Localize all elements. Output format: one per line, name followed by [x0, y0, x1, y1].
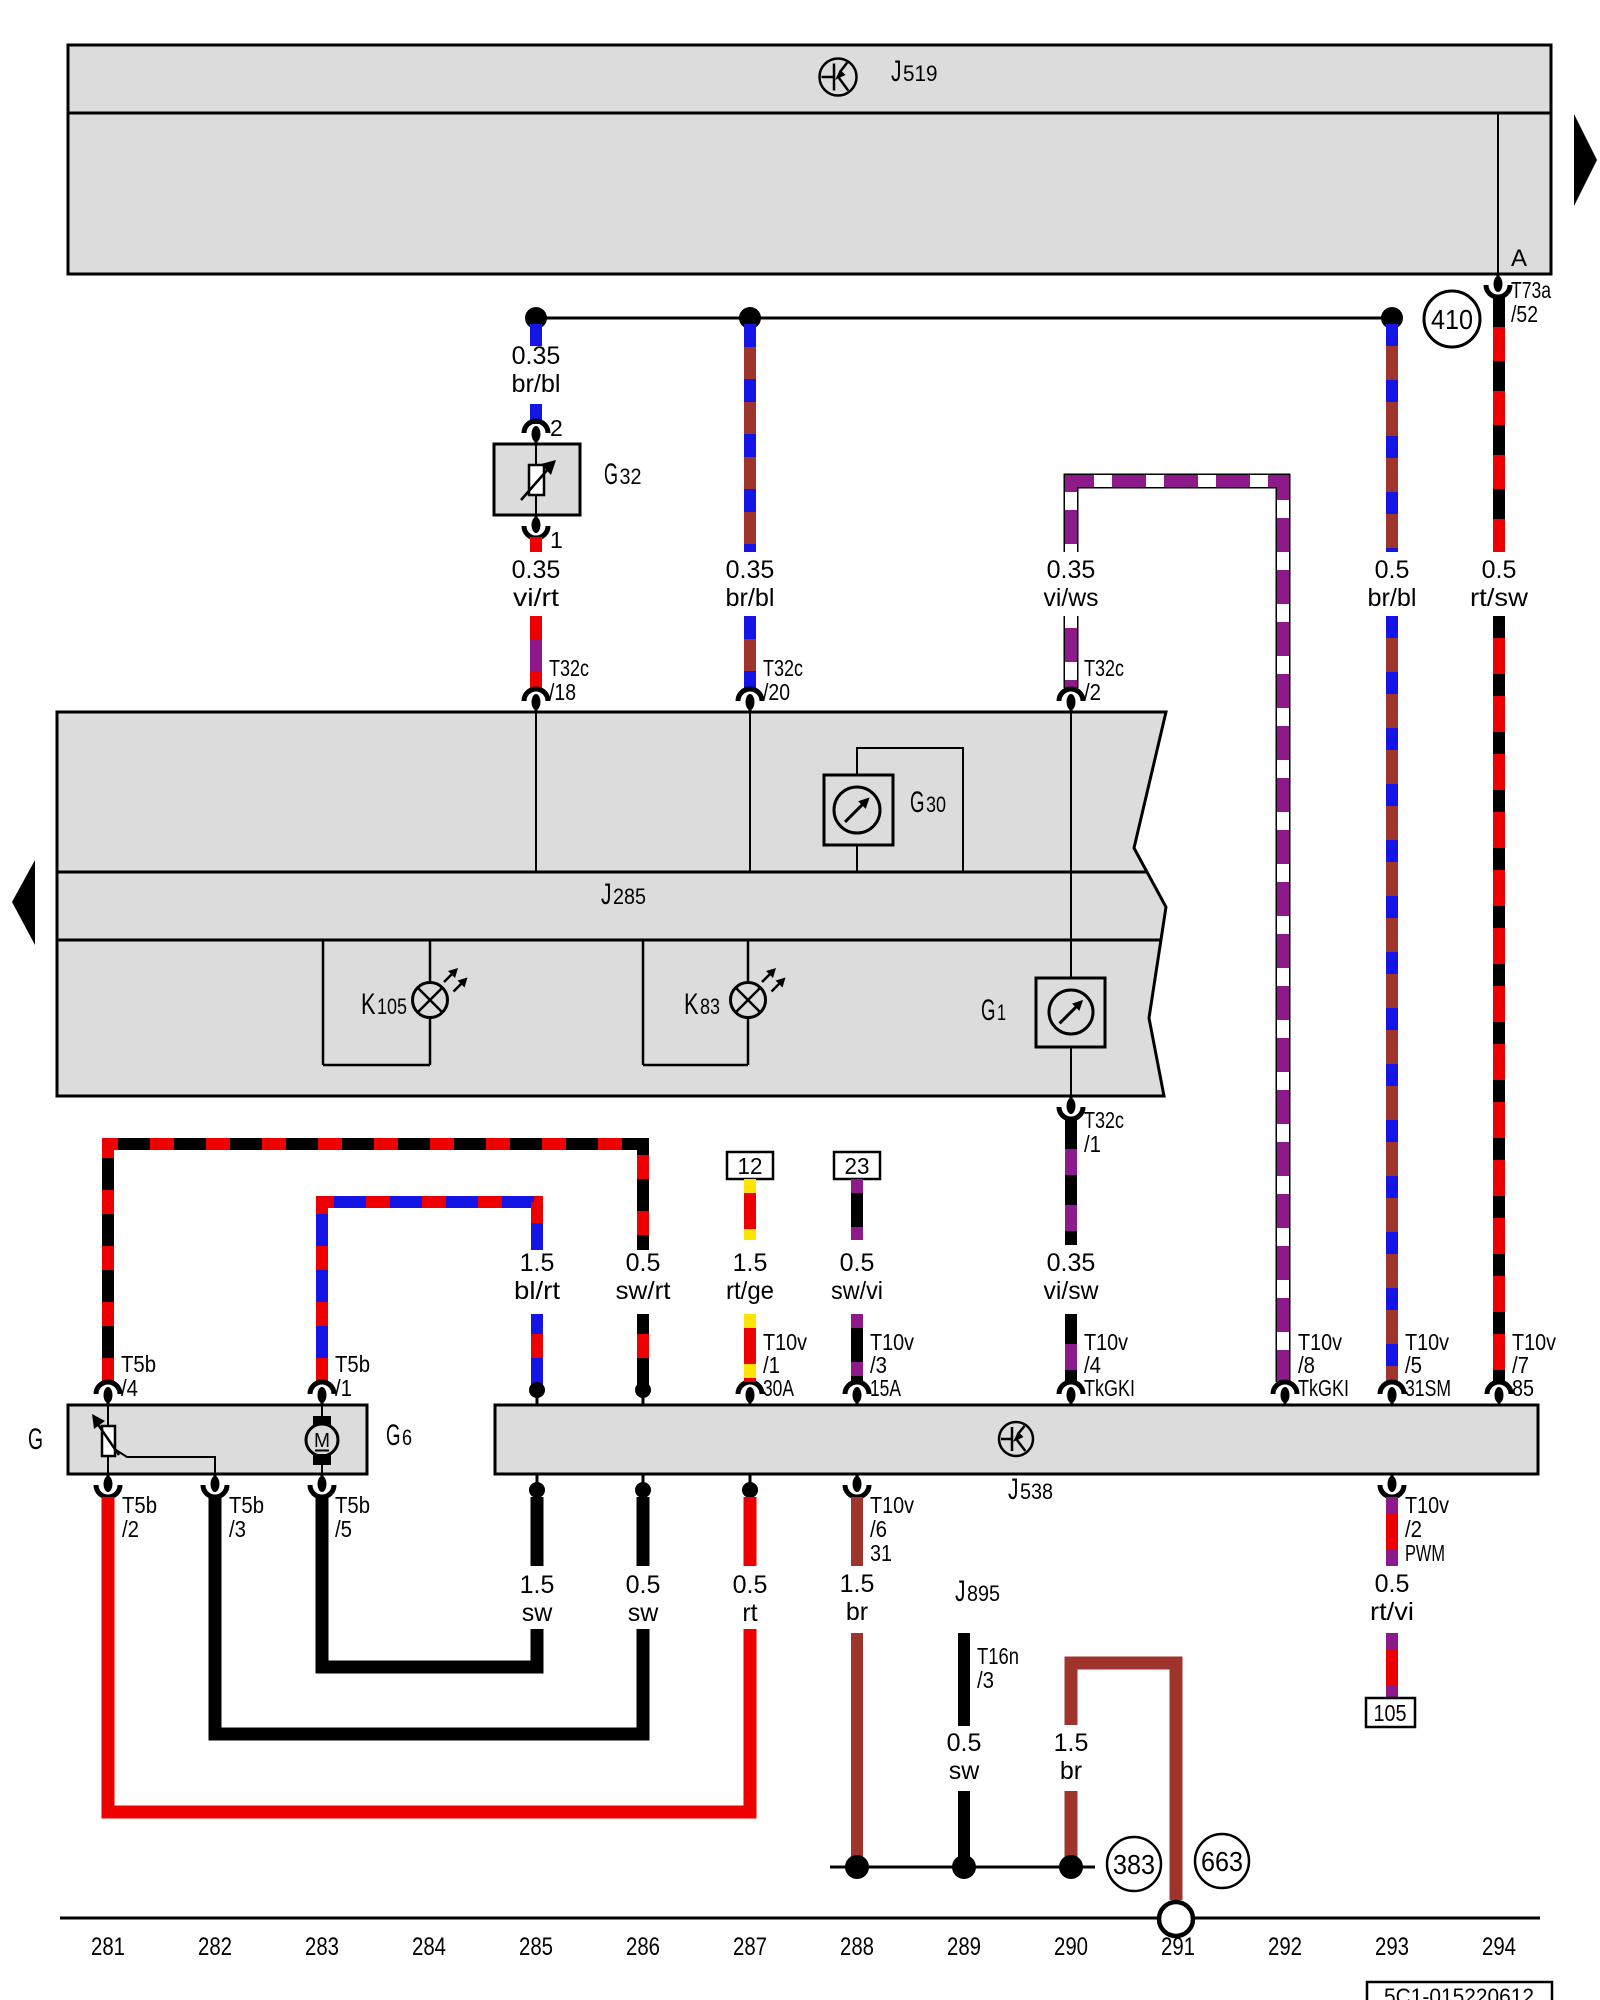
svg-text:12: 12	[738, 1153, 763, 1179]
svg-text:T5b: T5b	[122, 1492, 157, 1518]
svg-text:vi/sw: vi/sw	[1044, 1277, 1100, 1305]
svg-text:0.5: 0.5	[840, 1249, 875, 1277]
svg-text:0.5: 0.5	[1375, 1570, 1410, 1598]
internal wire from T32c/20	[749, 712, 751, 872]
svg-text:T10v: T10v	[870, 1492, 914, 1518]
wire vi/rt stub below G32	[530, 537, 542, 552]
connector T10v/6	[856, 1474, 859, 1490]
internal wire G1 to bottom edge	[1070, 1047, 1072, 1096]
svg-text:23: 23	[845, 1153, 870, 1179]
svg-text:287: 287	[733, 1933, 767, 1961]
svg-text:291: 291	[1161, 1933, 1195, 1961]
junction dot col293	[1381, 307, 1403, 329]
svg-text:0.5: 0.5	[947, 1729, 982, 1757]
connector T10v/1	[749, 1389, 752, 1405]
svg-text:br: br	[846, 1598, 868, 1626]
svg-text:J: J	[1008, 1473, 1019, 1506]
svg-text:PWM: PWM	[1405, 1540, 1445, 1566]
K symbol in J538	[999, 1422, 1033, 1456]
wire 1.5 sw stub	[531, 1497, 544, 1566]
ground connection circle on rail	[1159, 1902, 1193, 1936]
svg-text:sw: sw	[949, 1757, 981, 1785]
svg-text:281: 281	[91, 1933, 125, 1961]
control unit J538 (fuel pump control unit) box	[495, 1405, 1538, 1474]
svg-text:T32c: T32c	[763, 655, 803, 681]
terminal box 105	[1366, 1698, 1415, 1727]
wire 1.5 sw from T5b/5 to J538	[322, 1497, 537, 1667]
svg-text:br: br	[1060, 1757, 1082, 1785]
svg-text:T32c: T32c	[1084, 1107, 1124, 1133]
wire 0.5 sw/rt loop	[108, 1144, 643, 1382]
svg-text:T10v: T10v	[1405, 1492, 1449, 1518]
svg-text:1: 1	[997, 1000, 1006, 1025]
svg-text:895: 895	[967, 1581, 1000, 1606]
svg-text:410: 410	[1431, 304, 1473, 335]
connector T10v/5	[1391, 1389, 1394, 1405]
svg-text:1: 1	[550, 527, 563, 553]
svg-text:G: G	[386, 1419, 401, 1452]
svg-text:31: 31	[870, 1540, 892, 1566]
svg-text:G: G	[981, 994, 996, 1027]
internal wire from T32c/2 to G1	[1070, 712, 1072, 978]
svg-text:J: J	[891, 55, 902, 88]
svg-text:0.35: 0.35	[1047, 556, 1096, 584]
junction dot bl/rt at J538	[529, 1382, 545, 1398]
svg-text:M: M	[314, 1430, 330, 1452]
ground junction dot 290	[1059, 1855, 1083, 1879]
wire 0.5 sw/vi upper segment	[851, 1179, 863, 1240]
svg-text:/20: /20	[763, 679, 790, 705]
connector T5b/4	[107, 1389, 110, 1405]
svg-text:/2: /2	[1405, 1516, 1422, 1542]
wire 1.5 bl/rt to J538	[531, 1314, 543, 1388]
junction dot col287	[739, 307, 761, 329]
svg-text:1.5: 1.5	[520, 1571, 555, 1599]
connector T32c/18	[535, 696, 538, 712]
svg-text:bl/rt: bl/rt	[514, 1277, 560, 1305]
wire 0.5 sw stub	[637, 1497, 650, 1566]
svg-text:K: K	[361, 988, 376, 1021]
connector T10v/8	[1284, 1389, 1287, 1405]
wire br/bl stub to G32 pin 2	[530, 404, 542, 424]
connector T10v/4	[1070, 1389, 1073, 1405]
svg-text:TkGKI: TkGKI	[1298, 1375, 1349, 1401]
indicator lamp K83 circuit	[747, 940, 750, 983]
svg-text:85: 85	[1512, 1375, 1534, 1401]
svg-text:105: 105	[377, 994, 407, 1019]
svg-text:G: G	[28, 1423, 43, 1456]
svg-text:K: K	[684, 988, 699, 1021]
svg-text:0.35: 0.35	[512, 342, 561, 370]
svg-text:J: J	[955, 1575, 966, 1608]
ground junction dot 288	[845, 1855, 869, 1879]
direction arrow left	[12, 860, 35, 945]
wire 1.5 br ground loop	[1071, 1663, 1176, 1900]
svg-text:0.35: 0.35	[726, 556, 775, 584]
svg-text:0.5: 0.5	[1482, 556, 1517, 584]
svg-text:/18: /18	[549, 679, 576, 705]
svg-text:1.5: 1.5	[520, 1249, 555, 1277]
internal wire in J519 to pin A	[1497, 113, 1499, 274]
wire 1.5 br from T10v/6 upper	[851, 1497, 863, 1566]
connector G32 pin 2	[524, 421, 548, 433]
junction dot 1.5 sw at J538	[536, 1474, 539, 1490]
gauge symbol G1	[1049, 990, 1093, 1034]
svg-text:/1: /1	[335, 1375, 352, 1401]
connector T5b/1	[321, 1389, 324, 1405]
ground junction dot 289	[952, 1855, 976, 1879]
svg-text:284: 284	[412, 1933, 446, 1961]
svg-text:285: 285	[519, 1933, 553, 1961]
connector T73a/52	[1497, 274, 1500, 290]
gauge symbol G30	[834, 787, 880, 833]
connector T5b/2	[107, 1474, 110, 1490]
gauge G1 box (fuel gauge)	[1036, 978, 1105, 1047]
svg-text:rt/sw: rt/sw	[1470, 584, 1529, 612]
wire 0.5 rt/sw upper segment	[1493, 297, 1505, 552]
svg-text:T32c: T32c	[549, 655, 589, 681]
junction dot col285	[525, 307, 547, 329]
svg-text:TkGKI: TkGKI	[1084, 1375, 1135, 1401]
junction dot 0.5 rt at J538	[749, 1474, 752, 1490]
connector T5b/3	[214, 1474, 217, 1490]
svg-text:T16n: T16n	[977, 1643, 1019, 1669]
svg-text:538: 538	[1020, 1479, 1053, 1504]
svg-text:/3: /3	[977, 1667, 994, 1693]
svg-text:289: 289	[947, 1933, 981, 1961]
wire 1.5 rt/ge upper segment	[744, 1179, 756, 1240]
wire 0.5 sw of J895 upper	[958, 1633, 970, 1726]
sender G with pump G6 box	[68, 1405, 367, 1474]
wire bus (plus connection) y=318	[536, 317, 1392, 320]
connector G32 pin 1	[524, 526, 548, 538]
junction dot 0.5 sw at J538	[642, 1474, 645, 1490]
svg-text:1.5: 1.5	[1054, 1729, 1089, 1757]
svg-text:rt/vi: rt/vi	[1370, 1598, 1414, 1626]
svg-text:br/bl: br/bl	[726, 584, 775, 612]
wire 0.35 vi/sw lower segment	[1065, 1314, 1077, 1382]
lamp K83 (coolant warning)	[731, 983, 766, 1018]
svg-text:rt/ge: rt/ge	[726, 1277, 774, 1305]
svg-text:282: 282	[198, 1933, 232, 1961]
wire 0.5 rt/sw lower segment	[1493, 616, 1505, 1382]
svg-text:A: A	[1511, 245, 1527, 272]
svg-text:290: 290	[1054, 1933, 1088, 1961]
wire 1.5 br ground loop lower	[1065, 1791, 1078, 1867]
connector T32c/1	[1070, 1096, 1073, 1112]
connector T32c/20	[749, 696, 752, 712]
svg-text:J: J	[601, 878, 612, 911]
svg-text:0.5: 0.5	[1375, 556, 1410, 584]
wire br/bl stub above G32	[530, 324, 542, 346]
sender G32 box (fuel gauge sender 2)	[494, 444, 580, 515]
wire 0.5 br/bl lower segment	[1386, 616, 1398, 1382]
svg-text:T5b: T5b	[335, 1492, 370, 1518]
svg-text:/2: /2	[122, 1516, 139, 1542]
svg-text:519: 519	[903, 61, 938, 86]
sender G30 box (fuel gauge indicator)	[824, 775, 893, 845]
control unit J285 (instrument cluster) box	[57, 712, 1166, 1096]
svg-text:T32c: T32c	[1084, 655, 1124, 681]
wire 0.35 vi/rt to T32c/18	[530, 616, 542, 688]
svg-text:/1: /1	[1084, 1131, 1101, 1157]
svg-text:/52: /52	[1511, 301, 1538, 327]
wire 0.35 vi/ws stub to T32c/2	[1064, 616, 1079, 688]
internal wire from T32c/18	[535, 712, 537, 872]
svg-text:1.5: 1.5	[733, 1249, 768, 1277]
svg-text:2: 2	[550, 415, 563, 441]
wiper wire to T5b/3	[116, 1450, 215, 1474]
connector T10v/3	[856, 1389, 859, 1405]
wire 0.35 vi/sw upper segment	[1065, 1119, 1077, 1245]
wire 0.5 rt/vi lower segment	[1386, 1633, 1398, 1698]
svg-text:30: 30	[926, 792, 946, 817]
svg-text:T5b: T5b	[229, 1492, 264, 1518]
wire 0.5 sw/vi lower segment	[851, 1314, 863, 1382]
control unit J519 (onboard supply control unit) box	[68, 45, 1551, 274]
svg-text:0.35: 0.35	[512, 556, 561, 584]
wire 0.5 sw/rt to J538	[637, 1314, 649, 1388]
svg-text:rt: rt	[742, 1599, 757, 1627]
ground circle 383	[1107, 1837, 1161, 1891]
svg-text:vi/ws: vi/ws	[1044, 584, 1099, 612]
svg-text:292: 292	[1268, 1933, 1302, 1961]
svg-text:T5b: T5b	[121, 1351, 156, 1377]
svg-text:83: 83	[700, 994, 720, 1019]
svg-text:15A: 15A	[870, 1375, 901, 1401]
drawing number box	[1367, 1982, 1552, 2000]
wire 1.5 rt/ge lower segment	[744, 1314, 756, 1382]
svg-text:br/bl: br/bl	[512, 370, 561, 398]
svg-text:vi/rt: vi/rt	[513, 584, 559, 612]
svg-text:31SM: 31SM	[1405, 1375, 1451, 1401]
svg-text:288: 288	[840, 1933, 874, 1961]
fuse box 12	[727, 1152, 773, 1179]
svg-text:105: 105	[1374, 1700, 1407, 1726]
wire 1.5 br lower	[851, 1633, 863, 1867]
ground circle 663	[1195, 1834, 1249, 1888]
svg-text:6: 6	[402, 1425, 412, 1450]
svg-text:0.5: 0.5	[733, 1571, 768, 1599]
connector T32c/2	[1070, 696, 1073, 712]
svg-text:G: G	[604, 458, 618, 491]
svg-text:0.5: 0.5	[626, 1249, 661, 1277]
connector T10v/7	[1498, 1389, 1501, 1405]
svg-text:sw/rt: sw/rt	[616, 1277, 671, 1305]
svg-text:30A: 30A	[763, 1375, 794, 1401]
svg-text:/4: /4	[121, 1375, 138, 1401]
wire 0.5 sw of J895 lower	[958, 1791, 970, 1867]
svg-text:/2: /2	[1084, 679, 1101, 705]
svg-text:G: G	[910, 786, 925, 819]
svg-text:sw: sw	[628, 1599, 660, 1627]
svg-text:5C1-015220612: 5C1-015220612	[1384, 1984, 1534, 2000]
svg-text:/5: /5	[335, 1516, 352, 1542]
svg-text:32: 32	[620, 464, 642, 489]
ground bus line	[830, 1866, 1095, 1869]
motor symbol (fuel pump G6)	[321, 1405, 323, 1416]
bottom rail line	[60, 1917, 1540, 1920]
svg-text:663: 663	[1201, 1846, 1243, 1877]
svg-text:/3: /3	[229, 1516, 246, 1542]
svg-text:293: 293	[1375, 1933, 1409, 1961]
connector T5b/5	[321, 1474, 324, 1490]
svg-text:285: 285	[613, 884, 646, 909]
wire 0.35 br/bl stub to T32c/20	[744, 616, 756, 688]
wire 0.5 sw from T5b/3 to J538	[215, 1497, 643, 1734]
svg-text:294: 294	[1482, 1933, 1516, 1961]
potentiometer symbol (fuel level sender G)	[107, 1405, 109, 1426]
svg-text:0.5: 0.5	[626, 1571, 661, 1599]
lamp K105 (reserve fuel warning)	[413, 983, 448, 1018]
svg-text:283: 283	[305, 1933, 339, 1961]
svg-text:0.35: 0.35	[1047, 1249, 1096, 1277]
wire 1.5 bl/rt loop	[322, 1202, 537, 1382]
direction arrow right	[1574, 114, 1597, 206]
svg-text:sw/vi: sw/vi	[831, 1277, 883, 1305]
internal wire loop for G30	[857, 748, 963, 872]
wire 0.35 br/bl long segment	[744, 324, 756, 552]
wire 0.5 rt/vi upper segment	[1386, 1497, 1398, 1566]
svg-text:br/bl: br/bl	[1368, 584, 1417, 612]
wire 0.5 rt stub	[744, 1497, 757, 1566]
svg-text:T73a: T73a	[1511, 277, 1551, 303]
K symbol in J519	[820, 59, 857, 96]
svg-text:T5b: T5b	[335, 1351, 370, 1377]
svg-text:1.5: 1.5	[840, 1570, 875, 1598]
wire 0.35 vi/ws loop (outlined purple/white)	[1071, 481, 1283, 1382]
svg-text:sw: sw	[522, 1599, 554, 1627]
fuse box 23	[834, 1152, 880, 1179]
connector T10v/2	[1391, 1474, 1394, 1490]
indicator lamp K105 circuit	[429, 940, 432, 983]
svg-text:383: 383	[1113, 1849, 1155, 1880]
junction dot sw/rt at J538	[635, 1382, 651, 1398]
wire 0.5 rt from T5b/2 to J538	[108, 1497, 750, 1812]
reference circle 410	[1424, 291, 1480, 347]
svg-text:286: 286	[626, 1933, 660, 1961]
wire 0.5 br/bl upper segment	[1386, 324, 1398, 552]
svg-text:/6: /6	[870, 1516, 887, 1542]
